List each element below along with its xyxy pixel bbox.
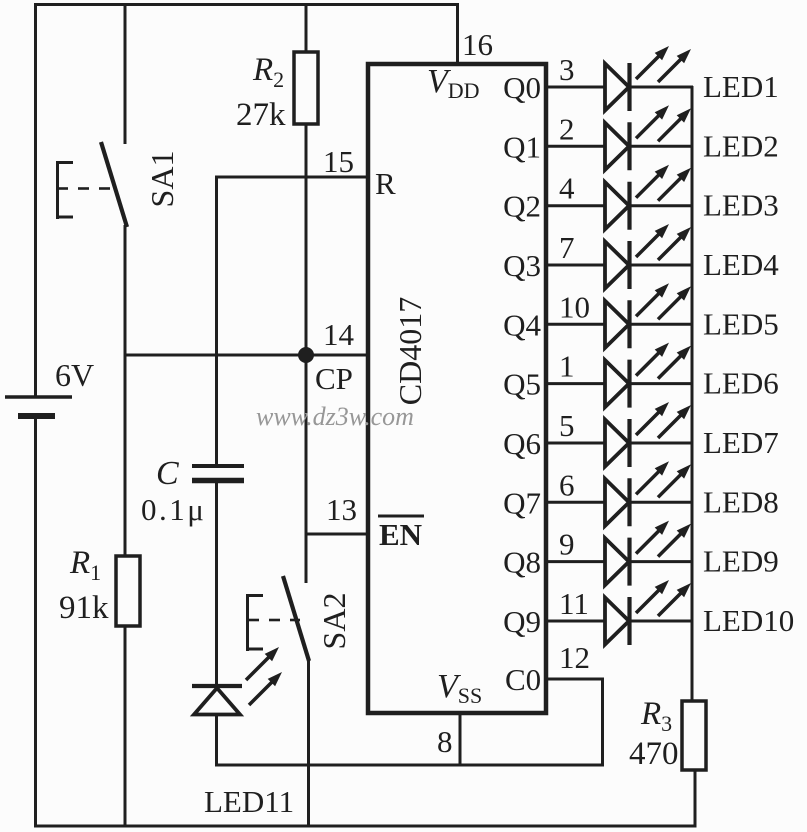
- svg-text:LED6: LED6: [703, 366, 779, 401]
- wire: C to LED11: [215, 480, 218, 686]
- wire: LED5 cathode to bus: [628, 323, 693, 326]
- svg-text:CP: CP: [315, 361, 353, 396]
- LED LED3 diode: [605, 182, 629, 229]
- wire: Q2 pin 4 to LED3: [546, 204, 605, 207]
- wire: vertical from pin15 line to capacitor C: [215, 176, 218, 467]
- LED LED6 diode: [605, 360, 629, 407]
- svg-text:Q5: Q5: [503, 367, 541, 402]
- wire: Q8 pin 9 to LED9: [546, 560, 605, 563]
- svg-text:LED9: LED9: [703, 544, 779, 579]
- svg-text:LED3: LED3: [703, 188, 779, 223]
- svg-text:Q1: Q1: [503, 129, 541, 164]
- wire: R1 to ground rail: [124, 626, 127, 827]
- wire: left rail lower (battery -): [34, 416, 37, 828]
- resistor R2 27k: [294, 52, 318, 124]
- wire: Q7 pin 6 to LED8: [546, 501, 605, 504]
- svg-text:0.1μ: 0.1μ: [141, 492, 206, 527]
- wire: pin 16 VDD from top rail: [456, 3, 459, 66]
- svg-text:Q2: Q2: [503, 189, 541, 224]
- wire: pin 12 C0 route: [546, 678, 604, 681]
- svg-text:LED8: LED8: [703, 484, 779, 519]
- node: CP junction dot: [298, 347, 314, 363]
- svg-text:LED1: LED1: [703, 69, 779, 104]
- wire: Q3 pin 7 to LED4: [546, 264, 605, 267]
- resistor R3 470: [682, 701, 706, 770]
- svg-text:14: 14: [323, 317, 355, 352]
- wire: SA2 to ground rail: [307, 659, 310, 827]
- svg-text:6: 6: [559, 467, 575, 502]
- svg-text:C: C: [156, 455, 179, 492]
- svg-text:13: 13: [326, 492, 357, 527]
- LED LED10 diode: [605, 598, 629, 645]
- svg-text:CD4017: CD4017: [392, 297, 428, 405]
- wire: Q4 pin 10 to LED5: [546, 323, 605, 326]
- svg-text:470: 470: [629, 736, 679, 772]
- wire: Q1 pin 2 to LED2: [546, 145, 605, 148]
- svg-text:Q9: Q9: [503, 604, 541, 639]
- svg-text:SA1: SA1: [144, 151, 180, 208]
- svg-text:LED10: LED10: [703, 603, 794, 638]
- svg-text:27k: 27k: [236, 97, 286, 133]
- wire: LED8 cathode to bus: [628, 501, 693, 504]
- svg-text:4: 4: [559, 171, 575, 206]
- svg-text:www.dz3w.com: www.dz3w.com: [256, 402, 414, 431]
- wire: R2 to CP junction: [305, 124, 308, 356]
- wire: SA1 branch from top rail: [124, 3, 127, 144]
- capacitor C 0.1u: [192, 464, 244, 468]
- svg-text:Q4: Q4: [503, 307, 541, 342]
- svg-text:R: R: [375, 166, 396, 201]
- svg-text:3: 3: [559, 52, 575, 87]
- svg-text:Q8: Q8: [503, 545, 541, 580]
- wire: LED7 cathode to bus: [628, 442, 693, 445]
- wire: LED4 cathode to bus: [628, 264, 693, 267]
- svg-text:LED11: LED11: [204, 784, 294, 819]
- LED LED4 diode: [605, 242, 629, 289]
- wire: LED3 cathode to bus: [628, 204, 693, 207]
- svg-text:15: 15: [323, 144, 354, 179]
- wire: LED10 cathode to bus: [628, 620, 693, 623]
- wire: Q5 pin 1 to LED6: [546, 382, 605, 385]
- LED LED2 diode: [605, 123, 629, 170]
- svg-text:Q0: Q0: [503, 70, 541, 105]
- resistor R1 91k: [116, 556, 140, 626]
- svg-text:10: 10: [559, 289, 590, 324]
- svg-text:Q3: Q3: [503, 248, 541, 283]
- svg-text:16: 16: [462, 27, 493, 62]
- svg-text:91k: 91k: [59, 590, 109, 626]
- wire: LED6 cathode to bus: [628, 382, 693, 385]
- svg-text:LED5: LED5: [703, 306, 779, 341]
- wire: LED cathode bus: [691, 86, 694, 701]
- wire: LED9 cathode to bus: [628, 560, 693, 563]
- svg-text:Q6: Q6: [503, 426, 541, 461]
- wire: pin 13 EN line: [306, 533, 368, 536]
- svg-text:C0: C0: [505, 662, 541, 697]
- svg-text:9: 9: [559, 527, 575, 562]
- wire: pin 8 VSS to ground link: [459, 713, 462, 767]
- wire: R2 branch from top rail: [305, 3, 308, 52]
- svg-text:SA2: SA2: [316, 593, 352, 650]
- LED LED5 diode: [605, 301, 629, 348]
- svg-text:EN: EN: [379, 517, 422, 552]
- svg-text:LED7: LED7: [703, 425, 779, 460]
- wire: CP clock line: [124, 354, 368, 357]
- wire: pin 15 reset line: [215, 176, 368, 179]
- svg-text:LED4: LED4: [703, 247, 779, 282]
- wire: R3 to ground rail: [694, 769, 697, 828]
- wire: Q6 pin 5 to LED7: [546, 442, 605, 445]
- wire: SA1 to CP node: [124, 225, 127, 357]
- svg-text:LED2: LED2: [703, 128, 779, 163]
- wire: LED1 cathode to bus: [628, 86, 693, 89]
- svg-text:11: 11: [559, 586, 589, 621]
- op IC U1 CD4017 body: [368, 64, 546, 713]
- LED LED9 diode: [605, 538, 629, 585]
- wire: Vss/ground link line: [215, 764, 604, 767]
- wire: bottom ground rail: [34, 825, 695, 828]
- LED11 diode: [192, 684, 242, 688]
- svg-text:Q7: Q7: [503, 485, 541, 520]
- wire: LED11 to Vss line: [215, 713, 218, 767]
- svg-text:12: 12: [559, 640, 590, 675]
- LED LED1 diode: [605, 64, 629, 111]
- battery GB 6V: [5, 395, 72, 399]
- LED LED8 diode: [605, 479, 629, 526]
- wire: SA1/R1 branch continues: [124, 355, 127, 556]
- svg-text:8: 8: [437, 724, 453, 759]
- wire: R2/SA2 branch below CP junction: [305, 354, 308, 583]
- svg-text:2: 2: [559, 111, 575, 146]
- wire: top supply rail: [34, 3, 459, 6]
- switch SA1: [56, 161, 59, 219]
- svg-text:6V: 6V: [55, 357, 94, 393]
- wire: LED2 cathode to bus: [628, 145, 693, 148]
- svg-text:1: 1: [559, 349, 575, 384]
- svg-text:7: 7: [559, 230, 575, 265]
- svg-text:5: 5: [559, 408, 575, 443]
- switch SA2: [246, 594, 249, 651]
- wire: Q0 pin 3 to LED1: [546, 86, 605, 89]
- wire: Q9 pin 11 to LED10: [546, 620, 605, 623]
- wire: left rail upper (battery +): [34, 3, 37, 397]
- LED LED7 diode: [605, 420, 629, 467]
